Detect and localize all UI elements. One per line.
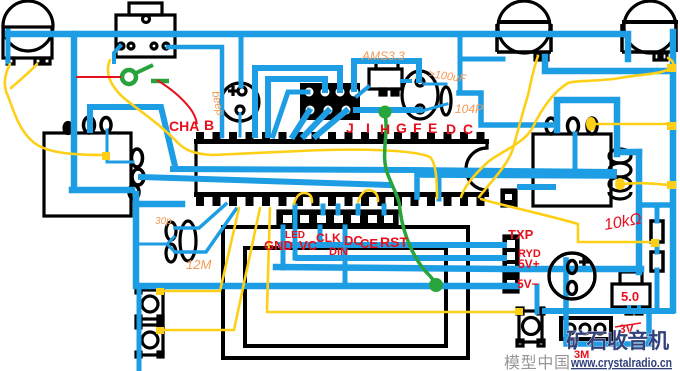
- wire cap diag top: [424, 83, 446, 86]
- wire to LS1: [460, 34, 503, 93]
- node green A: [379, 106, 392, 119]
- wire header stubs top: [295, 206, 384, 213]
- socket X1 (black block with holes): [300, 83, 360, 120]
- wire main rail: [8, 34, 628, 59]
- svg-text:RST: RST: [380, 234, 408, 250]
- wire red to switch: [76, 76, 121, 78]
- wire Ya pot wire: [5, 64, 104, 155]
- regulator U3 5.0: [612, 272, 650, 314]
- speaker LS1: [497, 1, 551, 60]
- svg-text:www.crystalradio.cn: www.crystalradio.cn: [570, 355, 672, 370]
- buzzer BEEP (circle with +): [221, 83, 259, 121]
- svg-text:12M: 12M: [186, 257, 211, 272]
- wire Ya pot stub: [11, 64, 37, 88]
- regulator U2 AMS1117: [369, 61, 402, 95]
- wire 5V+ vertical: [636, 152, 643, 272]
- capacitor C2 (electrolytic top view): [402, 71, 438, 119]
- wire AMS right stub: [402, 79, 410, 83]
- resistor R2: [651, 252, 663, 271]
- wire Yb switch wire: [108, 60, 437, 198]
- wire Y2 to resistor: [481, 199, 656, 242]
- wire T1 inner: [107, 130, 133, 162]
- wire Y7 spring tap: [624, 183, 671, 185]
- capacitor C3 104P: [441, 87, 451, 115]
- wire green: [385, 114, 434, 281]
- wire IC pin to socket B: [268, 79, 325, 135]
- svg-text:E: E: [428, 120, 437, 136]
- wire AMS left stub: [357, 87, 368, 96]
- wire T2 inner: [573, 134, 578, 172]
- wire left vertical: [72, 34, 132, 190]
- battery holder BT1: [561, 318, 611, 339]
- svg-text:F: F: [413, 120, 422, 136]
- LCD module: [223, 227, 468, 358]
- wire H1: [281, 242, 504, 248]
- wire 5V- stub to SW2: [535, 286, 540, 312]
- buzzer BZ1 outline over wires: [549, 253, 595, 299]
- wire T1 top elbow: [90, 107, 175, 166]
- speaker LS2: [622, 1, 678, 60]
- svg-text:J: J: [346, 120, 354, 136]
- wire stub D: [343, 227, 348, 285]
- svg-text:TXP: TXP: [508, 227, 534, 242]
- wire beep cap feed: [239, 34, 244, 86]
- crystal Y1 12M: [166, 221, 196, 262]
- wire HB across IC: [141, 177, 390, 185]
- svg-text:CE: CE: [360, 236, 378, 251]
- wire xtal cap tap: [139, 237, 174, 251]
- button SW2: [517, 308, 544, 346]
- wire stub C: [318, 227, 323, 245]
- wire cap diag bottom: [422, 104, 447, 111]
- buzzer BZ1: [549, 253, 595, 299]
- svg-text:B: B: [204, 117, 214, 133]
- wire Y5 from LS1: [479, 56, 538, 197]
- wire far right vertical: [670, 32, 677, 310]
- button SW4: [136, 323, 163, 357]
- svg-text:矿石收音机: 矿石收音机: [566, 329, 669, 353]
- svg-text:104P: 104P: [455, 102, 483, 116]
- svg-text:H: H: [380, 121, 390, 137]
- wire buzzer to battery: [566, 260, 649, 344]
- wire to T2 coil: [459, 93, 551, 125]
- wire beep cap to IC: [239, 114, 242, 136]
- transformer T1: [44, 117, 144, 216]
- wire R top elbow: [639, 202, 671, 208]
- coil L1 (spring on T2 right): [609, 149, 631, 199]
- wire IC pin to socket A: [255, 68, 340, 135]
- transformer T2: [533, 118, 611, 206]
- wire hook 1: [294, 193, 312, 204]
- svg-text:5V+: 5V+: [518, 257, 540, 271]
- wire socket diag 3: [316, 111, 346, 136]
- resistor R1: [651, 221, 663, 242]
- wire xtal diag 1: [175, 204, 226, 228]
- potentiometer VR1: [3, 1, 53, 64]
- wire HA stub: [437, 177, 442, 199]
- pin block P1: [502, 190, 516, 206]
- wire LS1 right rail: [545, 57, 672, 71]
- switch contact dash: [151, 79, 169, 84]
- wire D2 button2: [162, 208, 260, 330]
- wire stub A: [281, 227, 286, 268]
- wire bottom right rail: [545, 308, 672, 314]
- wire coil elbow: [617, 149, 639, 156]
- svg-text:D: D: [446, 121, 456, 137]
- wire stub B: [293, 208, 298, 258]
- wire HA2: [417, 175, 614, 197]
- wire socket left hole: [273, 92, 308, 136]
- wire R chain: [655, 205, 660, 308]
- wire switch stub: [114, 46, 120, 62]
- switch S1: [116, 3, 175, 57]
- wire buttons vertical: [137, 286, 142, 371]
- svg-text:30p: 30p: [155, 216, 172, 227]
- svg-text:C: C: [463, 121, 473, 137]
- wire T1 to 5V- rail: [136, 194, 517, 286]
- svg-text:I: I: [366, 120, 370, 136]
- connector J2 TXP: [504, 236, 518, 292]
- wire socket diag 2: [304, 111, 328, 136]
- switch lever ring: [122, 70, 136, 84]
- svg-text:5.0: 5.0: [621, 289, 639, 304]
- wire reg pins: [629, 307, 639, 311]
- wire under AMS: [356, 107, 420, 113]
- svg-text:5V−: 5V−: [517, 277, 539, 291]
- node green B: [429, 278, 443, 292]
- svg-text:CLK: CLK: [316, 231, 341, 245]
- wire hook 2: [358, 190, 378, 202]
- wire H2: [298, 255, 504, 261]
- svg-text:AMS3.3: AMS3.3: [361, 49, 405, 63]
- wire D1 button1: [162, 208, 239, 291]
- wire xtal diag 2: [175, 209, 236, 252]
- wire Y6 coil tap: [595, 123, 669, 126]
- wire HA across IC: [173, 169, 614, 172]
- IC U1: [194, 132, 489, 206]
- wire Y3 from LS2: [461, 58, 673, 197]
- wire xtal rail: [138, 201, 182, 208]
- wire socket diag 1: [293, 111, 309, 136]
- wire HB stub: [520, 184, 553, 190]
- svg-text:CHA: CHA: [169, 118, 199, 134]
- wire AMS top loop: [354, 61, 419, 89]
- svg-text:VC: VC: [299, 238, 318, 253]
- wire pot pin: [6, 31, 11, 62]
- svg-text:模型中国: 模型中国: [504, 354, 570, 371]
- node yellow: [102, 64, 676, 334]
- wire red curve: [157, 80, 197, 124]
- wire switch out: [168, 47, 222, 136]
- wire H3 5V+: [276, 267, 641, 269]
- switch lever arm: [136, 65, 153, 73]
- wire D3 to SW2: [267, 208, 520, 312]
- wire T2 top loop: [557, 100, 617, 154]
- svg-text:G: G: [396, 120, 407, 136]
- header J1: [278, 211, 397, 227]
- button SW3: [136, 288, 163, 321]
